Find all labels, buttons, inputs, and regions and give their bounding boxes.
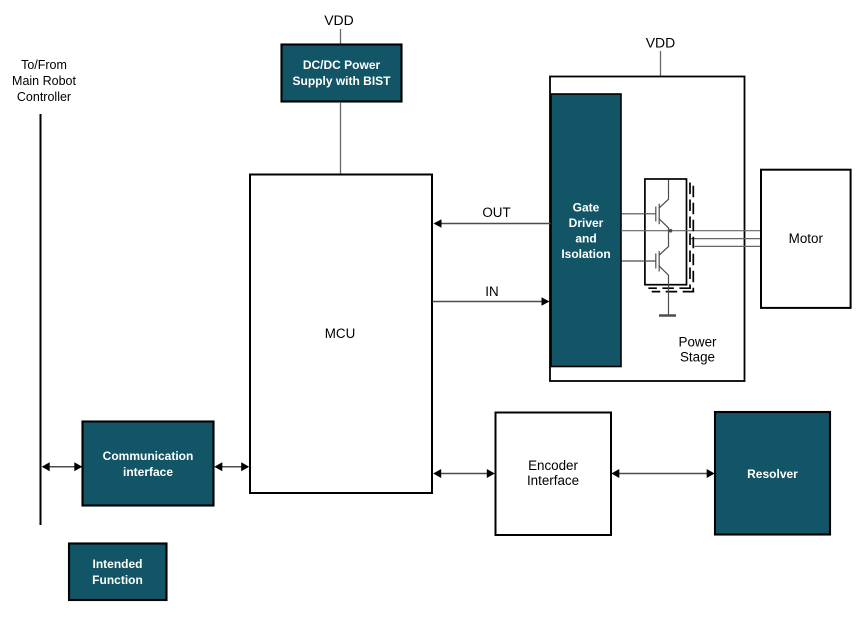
wire: DC/DC supply to MCU [340, 102, 342, 174]
wire: phase C to motor [695, 245, 762, 247]
svg-text:interface: interface [123, 465, 173, 479]
half-bridge module box [645, 179, 687, 285]
block: Motor [761, 170, 851, 308]
svg-text:Driver: Driver [569, 216, 604, 230]
svg-text:Function: Function [92, 573, 143, 587]
wire: phase A to motor [621, 230, 761, 232]
wire: VDD into power stage [660, 51, 662, 80]
svg-text:OUT: OUT [482, 205, 510, 220]
wire: main robot controller bus [40, 114, 42, 525]
svg-text:Resolver: Resolver [747, 467, 798, 481]
legend: Intended Function [69, 544, 167, 601]
svg-text:VDD: VDD [324, 12, 354, 28]
block: DC/DC Power Supply with BIST [282, 45, 402, 102]
svg-text:Power: Power [679, 335, 717, 350]
block: Gate Driver and Isolation [551, 94, 621, 367]
svg-text:Main Robot: Main Robot [12, 74, 76, 88]
ground [659, 285, 676, 315]
node: phase junction [669, 229, 673, 233]
label: To/From Main Robot Controller [12, 58, 76, 104]
svg-text:Supply with BIST: Supply with BIST [293, 74, 392, 88]
double arrow: MCU to encoder interface [433, 469, 495, 478]
wire: VDD to DC/DC supply [340, 29, 342, 45]
svg-text:Controller: Controller [17, 90, 71, 104]
svg-text:IN: IN [485, 284, 498, 299]
svg-text:MCU: MCU [325, 326, 356, 341]
svg-text:DC/DC Power: DC/DC Power [303, 58, 381, 72]
block: Communication interface [83, 422, 214, 506]
block: Encoder Interface [496, 413, 612, 536]
block: Power Stage (outer) [550, 77, 745, 382]
arrow OUT: gate driver to MCU [434, 205, 551, 228]
transistor Q2 (low-side IGBT) [622, 231, 669, 286]
svg-text:Isolation: Isolation [561, 247, 610, 261]
svg-text:Intended: Intended [93, 557, 143, 571]
block: Resolver [715, 412, 830, 535]
double arrow: encoder interface to resolver [611, 469, 714, 478]
svg-text:Interface: Interface [527, 473, 579, 488]
svg-text:To/From: To/From [21, 58, 67, 72]
svg-text:Encoder: Encoder [528, 458, 578, 473]
svg-text:Communication: Communication [103, 449, 194, 463]
arrow IN: MCU to gate driver [433, 284, 550, 306]
svg-text:and: and [575, 232, 596, 246]
transistor Q1 (high-side IGBT) [622, 180, 669, 231]
double arrow: controller bus to communication interface [42, 462, 83, 471]
svg-text:VDD: VDD [646, 35, 676, 51]
svg-text:Stage: Stage [680, 350, 715, 365]
dashed phase module (middle) [648, 183, 691, 289]
block: MCU [250, 175, 432, 494]
wire: phase B to motor [691, 238, 761, 240]
svg-text:Gate: Gate [573, 201, 600, 215]
dashed phase module (back) [652, 186, 695, 292]
double arrow: communication interface to MCU [214, 462, 249, 471]
svg-text:Motor: Motor [789, 231, 824, 246]
